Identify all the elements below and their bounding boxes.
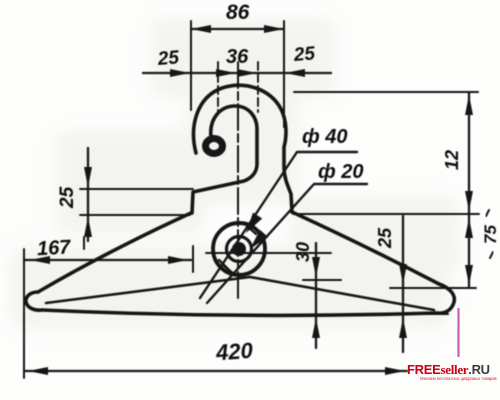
hub outer circle	[213, 223, 265, 275]
left tip cap	[26, 292, 42, 310]
dimension 12 vertical	[465, 92, 473, 214]
dimension 420 line	[24, 367, 407, 375]
hub center dot	[232, 242, 246, 256]
svg-text:12: 12	[442, 150, 462, 170]
right arm inner rib line	[250, 277, 434, 310]
hub hatch	[219, 226, 256, 274]
hanger hook inner outline	[192, 106, 257, 213]
dimension 25 at tip vertical	[399, 216, 407, 352]
left arm top edge	[38, 213, 191, 292]
svg-text:167: 167	[36, 236, 71, 260]
hub inner circle	[227, 237, 252, 262]
svg-text:ф 20: ф 20	[318, 161, 364, 183]
hook tip curl	[206, 139, 223, 154]
extension line tip bottom	[394, 313, 448, 315]
hub horizontal centerline	[206, 252, 331, 254]
extension line mid right (75 dim)	[293, 213, 479, 215]
left 25 dimension vertical	[84, 148, 92, 241]
watermark vertical magenta line	[457, 308, 459, 357]
svg-text:25: 25	[156, 47, 180, 70]
FREEseller.RU logo	[407, 363, 489, 383]
dimension 86 line	[191, 25, 284, 33]
dimension 75 vertical	[465, 214, 473, 288]
svg-text:25: 25	[375, 227, 395, 249]
tick 30 top	[303, 279, 341, 281]
svg-text:86: 86	[226, 1, 250, 24]
scan shading patches	[10, 18, 460, 330]
leader line dia20	[207, 184, 367, 303]
extension line left 25 bottom	[80, 214, 190, 216]
dimension 25/36/25 line	[143, 69, 331, 77]
svg-text:75: 75	[481, 225, 500, 244]
right arm top edge	[292, 212, 439, 284]
quote tick below 75 label	[490, 252, 493, 258]
extension line top right (12 dim)	[294, 91, 478, 93]
extension line tip top	[390, 287, 476, 289]
extension line 86 right	[283, 21, 285, 127]
hanger hook outer outline	[194, 85, 292, 212]
svg-text:25: 25	[292, 43, 316, 66]
quote tick above 75 label	[486, 210, 489, 216]
svg-text:36: 36	[226, 46, 249, 68]
dimension 167 line	[24, 256, 191, 264]
tick 30 bottom	[303, 314, 341, 316]
svg-text:420: 420	[214, 338, 254, 366]
extension line 167/420 left	[23, 249, 25, 378]
extension line 167 right	[192, 246, 194, 272]
extension line left 25 top	[80, 188, 193, 190]
bottom edge	[42, 310, 437, 315]
svg-text:25: 25	[57, 186, 78, 209]
tick after 167 label	[83, 237, 85, 249]
svg-text:30: 30	[293, 242, 313, 262]
extension line 86 left	[190, 21, 192, 110]
vertical centerline	[237, 62, 239, 300]
leader line dia40	[200, 152, 357, 298]
left arm inner rib line	[46, 277, 250, 303]
svg-text:ф 40: ф 40	[302, 126, 348, 148]
right tip cap	[437, 284, 454, 313]
extension line 36 right	[257, 62, 259, 112]
extension line 36 left	[217, 62, 219, 112]
dimension 30 vertical	[312, 243, 320, 348]
